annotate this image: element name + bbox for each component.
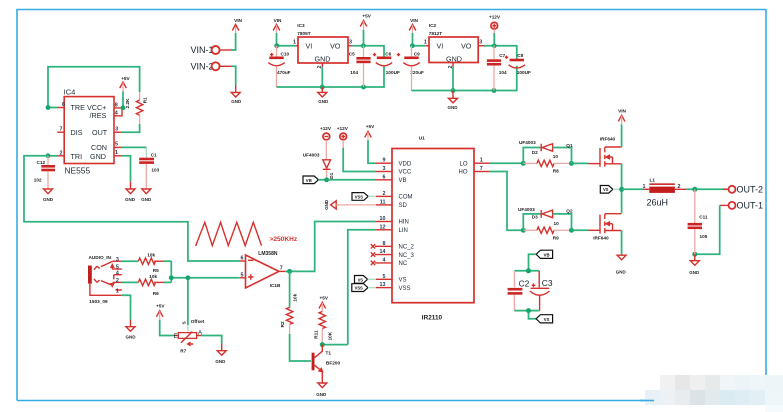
svg-text:VI: VI [437, 41, 444, 50]
svg-text:IC3: IC3 [297, 23, 305, 28]
svg-text:VDD: VDD [399, 161, 412, 167]
svg-text:VB: VB [306, 178, 313, 183]
svg-text:104: 104 [350, 70, 358, 75]
svg-text:VCC: VCC [399, 170, 412, 176]
svg-text:L1: L1 [650, 178, 656, 183]
svg-text:VIN: VIN [234, 18, 242, 23]
svg-text:103: 103 [151, 168, 159, 173]
svg-text:UF4003: UF4003 [303, 153, 320, 158]
svg-text:VS: VS [399, 278, 407, 284]
svg-text:GND: GND [125, 197, 136, 202]
svg-text:IC4: IC4 [64, 88, 76, 97]
svg-text:VO: VO [330, 41, 341, 50]
svg-text:VSS: VSS [399, 286, 411, 292]
svg-text:R9: R9 [553, 235, 559, 240]
svg-text:Q2: Q2 [566, 209, 573, 214]
svg-text:C8: C8 [517, 53, 523, 58]
svg-text:5: 5 [241, 272, 244, 278]
svg-text:GND: GND [43, 197, 54, 202]
svg-text:10k: 10k [149, 274, 157, 279]
svg-text:VS: VS [603, 187, 609, 192]
svg-text:R11: R11 [313, 330, 318, 339]
svg-text:C7: C7 [499, 53, 505, 58]
svg-text:3: 3 [349, 40, 352, 46]
svg-text:VIN-1: VIN-1 [191, 45, 214, 55]
svg-text:OUT-2: OUT-2 [737, 185, 764, 195]
svg-text:UF4003: UF4003 [519, 140, 536, 145]
svg-text:VIN: VIN [410, 18, 418, 23]
svg-text:VI: VI [306, 41, 313, 50]
svg-text:11: 11 [380, 199, 386, 205]
svg-text:TRE: TRE [71, 103, 86, 112]
svg-text:VSS: VSS [355, 286, 363, 291]
svg-text:C11: C11 [699, 214, 708, 219]
svg-text:>250KHz: >250KHz [270, 236, 298, 243]
svg-text:D3: D3 [532, 215, 538, 220]
svg-text:D2: D2 [532, 150, 538, 155]
svg-text:C3: C3 [542, 278, 553, 288]
svg-text:4: 4 [116, 270, 119, 276]
svg-text:GND: GND [316, 392, 327, 397]
svg-text:IRF640: IRF640 [600, 136, 616, 141]
svg-text:C12: C12 [37, 160, 46, 165]
svg-text:IR2110: IR2110 [422, 315, 443, 322]
svg-text:C5: C5 [349, 52, 355, 57]
svg-text:100UF: 100UF [386, 70, 400, 75]
svg-text:220uF: 220uF [410, 70, 424, 75]
svg-text:BF200: BF200 [326, 361, 340, 366]
svg-text:C2: C2 [519, 278, 530, 288]
svg-text:GND: GND [231, 99, 242, 104]
svg-text:5: 5 [115, 141, 118, 147]
svg-text:GND: GND [689, 270, 700, 275]
svg-text:T1: T1 [326, 351, 332, 356]
svg-text:Offset: Offset [191, 319, 205, 324]
svg-text:4: 4 [115, 111, 118, 117]
svg-text:C6: C6 [385, 52, 391, 57]
svg-text:1: 1 [643, 184, 646, 190]
svg-text:E: E [174, 333, 178, 340]
svg-text:10k: 10k [147, 253, 155, 258]
svg-text:7812T: 7812T [429, 31, 442, 36]
svg-text:+12V: +12V [320, 126, 332, 131]
svg-text:3: 3 [479, 40, 482, 46]
svg-text:13: 13 [380, 282, 386, 288]
svg-text:OUT-1: OUT-1 [737, 201, 764, 211]
svg-text:3: 3 [115, 126, 118, 132]
svg-text:Q1: Q1 [566, 143, 573, 148]
svg-text:+12V: +12V [337, 126, 349, 131]
svg-text:7: 7 [280, 265, 283, 271]
svg-text:6: 6 [62, 102, 65, 108]
svg-text:+5V: +5V [366, 124, 375, 129]
svg-text:VIN-2: VIN-2 [191, 62, 214, 72]
svg-text:IRF640: IRF640 [593, 236, 609, 241]
svg-text:9: 9 [383, 158, 386, 164]
svg-text:U1: U1 [419, 135, 425, 140]
svg-text:100UF: 100UF [517, 70, 531, 75]
svg-text:IC1B: IC1B [270, 283, 281, 288]
svg-text:7: 7 [480, 166, 483, 172]
svg-text:TRI: TRI [71, 152, 83, 161]
svg-text:C9: C9 [414, 52, 420, 57]
svg-text:LIN: LIN [399, 228, 408, 234]
svg-text:+12V: +12V [489, 15, 501, 20]
svg-text:IC2: IC2 [429, 23, 437, 28]
svg-text:VSS: VSS [355, 194, 363, 199]
svg-text:GND: GND [324, 199, 329, 210]
svg-text:VS: VS [358, 277, 364, 282]
svg-text:+5V: +5V [320, 295, 329, 300]
svg-text:102: 102 [34, 178, 42, 183]
svg-text:1: 1 [116, 288, 119, 294]
svg-text:14: 14 [380, 249, 386, 255]
svg-text:D1: D1 [329, 172, 334, 178]
svg-text:NE555: NE555 [65, 166, 91, 176]
svg-text:GND: GND [318, 99, 329, 104]
svg-text:R8: R8 [553, 169, 559, 174]
svg-text:4: 4 [383, 257, 386, 263]
svg-text:SD: SD [399, 203, 408, 209]
svg-text:104: 104 [499, 70, 507, 75]
svg-text:8: 8 [115, 103, 118, 109]
svg-text:1: 1 [293, 40, 296, 46]
svg-text:10k: 10k [293, 293, 298, 301]
svg-text:7: 7 [60, 127, 63, 133]
svg-text:GND: GND [126, 334, 137, 339]
svg-text:2: 2 [60, 150, 63, 156]
svg-text:DIS: DIS [71, 128, 83, 137]
svg-text:+5V: +5V [156, 304, 165, 309]
svg-text:+5V: +5V [121, 76, 130, 81]
svg-text:NC: NC [399, 261, 408, 267]
svg-text:VIN: VIN [618, 109, 626, 114]
svg-text:S: S [181, 321, 186, 324]
svg-text:6: 6 [383, 174, 386, 180]
svg-text:NC_2: NC_2 [399, 245, 415, 251]
svg-text:2.2K: 2.2K [125, 98, 130, 109]
svg-text:AUDIO_IN: AUDIO_IN [89, 255, 112, 260]
svg-text:GND: GND [446, 54, 462, 63]
svg-text:LO: LO [459, 161, 467, 167]
svg-text:C1: C1 [151, 152, 157, 157]
svg-text:105: 105 [700, 234, 708, 239]
svg-text:HIN: HIN [399, 220, 409, 226]
svg-text:/RES: /RES [90, 111, 107, 120]
svg-text:10: 10 [554, 221, 560, 226]
svg-text:GND: GND [315, 54, 331, 63]
svg-text:3: 3 [116, 257, 119, 263]
svg-text:GND: GND [448, 105, 459, 110]
svg-text:OUT: OUT [92, 128, 108, 137]
svg-text:2: 2 [116, 278, 119, 284]
svg-text:2: 2 [383, 191, 386, 197]
svg-text:VS: VS [544, 317, 550, 322]
svg-text:VIN: VIN [274, 18, 282, 23]
svg-text:12: 12 [380, 224, 386, 230]
svg-text:10: 10 [553, 154, 559, 159]
svg-text:VB: VB [399, 178, 407, 184]
svg-text:10: 10 [380, 216, 386, 222]
svg-text:NC_3: NC_3 [399, 253, 415, 259]
svg-text:R5: R5 [153, 268, 159, 273]
svg-text:7805T: 7805T [297, 31, 310, 36]
svg-text:GND: GND [616, 269, 627, 274]
svg-text:1503_09: 1503_09 [89, 299, 108, 304]
svg-text:1: 1 [424, 40, 427, 46]
svg-text:+5V: +5V [362, 14, 371, 19]
svg-text:5: 5 [383, 274, 386, 280]
svg-text:C10: C10 [281, 52, 290, 57]
svg-text:UF4003: UF4003 [518, 207, 535, 212]
svg-text:R7: R7 [180, 349, 186, 354]
svg-text:R2: R2 [280, 321, 285, 327]
svg-text:26uH: 26uH [647, 198, 669, 208]
svg-text:GND: GND [141, 197, 152, 202]
svg-text:R6: R6 [153, 291, 159, 296]
svg-text:GND: GND [90, 152, 106, 161]
svg-text:3: 3 [383, 166, 386, 172]
svg-text:8: 8 [383, 241, 386, 247]
svg-text:LM358N: LM358N [258, 251, 278, 257]
svg-text:10K: 10K [328, 331, 333, 340]
svg-text:470uF: 470uF [277, 70, 291, 75]
svg-text:1: 1 [480, 158, 483, 164]
svg-text:R1: R1 [143, 97, 148, 103]
svg-text:HO: HO [459, 170, 468, 176]
svg-text:VO: VO [461, 41, 472, 50]
svg-text:GND: GND [215, 359, 226, 364]
svg-text:6: 6 [241, 256, 244, 262]
svg-text:COM: COM [399, 195, 413, 201]
svg-text:VB: VB [544, 252, 550, 257]
